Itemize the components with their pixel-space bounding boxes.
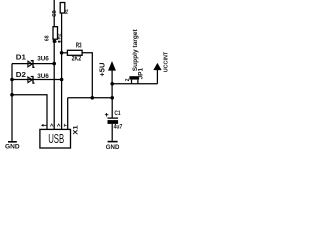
USB connector X1 box — [40, 129, 71, 148]
svg-text:USB: USB — [48, 131, 64, 146]
svg-text:4u7: 4u7 — [114, 124, 123, 131]
jumper JP1 pins — [132, 80, 138, 84]
svg-text:2: 2 — [125, 78, 131, 81]
resistor R3 — [67, 50, 82, 55]
junction pin1 branch on left rail — [10, 93, 14, 97]
svg-text:2K2: 2K2 — [72, 56, 82, 63]
svg-text:3U6: 3U6 — [37, 73, 49, 80]
zener diode D2 — [28, 77, 35, 84]
svg-text:R1: R1 — [64, 9, 69, 14]
svg-text:GND: GND — [5, 144, 20, 150]
junction D2 on left rail — [10, 78, 14, 82]
svg-text:X1: X1 — [73, 125, 80, 135]
junction node below R2 — [53, 40, 57, 44]
wire +5V to jumper/UCCINT — [112, 83, 157, 85]
wire pin1 (GND to USB) — [12, 95, 47, 130]
jumper JP1 bar — [129, 76, 139, 79]
junction +5V arrow / horizontal — [110, 82, 114, 86]
svg-text:R2: R2 — [57, 33, 62, 39]
wire R3 left — [62, 52, 68, 54]
svg-text:Supply target: Supply target — [132, 28, 139, 71]
svg-text:GND: GND — [106, 144, 120, 150]
svg-text:D2: D2 — [16, 70, 26, 79]
ground symbol right — [108, 141, 118, 143]
svg-text:68: 68 — [52, 10, 58, 17]
svg-text:3U6: 3U6 — [37, 55, 49, 62]
wire net D+ vertical rail V1 — [53, 0, 55, 129]
svg-text:D1: D1 — [16, 53, 26, 62]
pin decoration smudge pin4 — [64, 124, 66, 127]
junction R3 on +5V rail — [91, 96, 95, 100]
UCCINT supply arrow — [156, 70, 158, 84]
wire GND left rail — [11, 64, 13, 141]
wire net D- vertical rail V2 — [61, 13, 63, 129]
resistor R2 — [53, 27, 58, 40]
junction D1 on V1 — [52, 62, 56, 66]
wire D1 row — [12, 63, 54, 65]
svg-text:+5U: +5U — [99, 63, 106, 77]
pin decoration smudge pin3 — [57, 124, 60, 127]
capacitor C1 plates — [108, 117, 119, 119]
junction node R3 left on V2 — [60, 51, 64, 55]
zener diode D1 — [28, 61, 35, 68]
junction C1 top — [110, 96, 114, 100]
svg-text:R3: R3 — [76, 41, 82, 50]
+5V supply arrow — [111, 70, 113, 98]
net label smudge — [56, 41, 57, 42]
capacitor C1 plus sign — [105, 113, 109, 117]
ground symbol left — [8, 141, 17, 143]
svg-text:68: 68 — [45, 35, 51, 41]
svg-text:UCCINT: UCCINT — [164, 51, 170, 72]
resistor R1 — [60, 3, 65, 14]
wire D2 row — [12, 79, 62, 81]
junction D2 on V2 — [60, 78, 64, 82]
wire +5V bottom rail — [68, 98, 113, 130]
pin decoration arrow pin1 — [42, 124, 47, 126]
wire C1 bottom lead — [111, 124, 113, 141]
wire R3 right to +5V net — [82, 53, 92, 98]
svg-text:C1: C1 — [114, 110, 120, 117]
pin decoration smudge pin2 — [50, 124, 53, 127]
wire C1 top lead — [111, 98, 113, 118]
